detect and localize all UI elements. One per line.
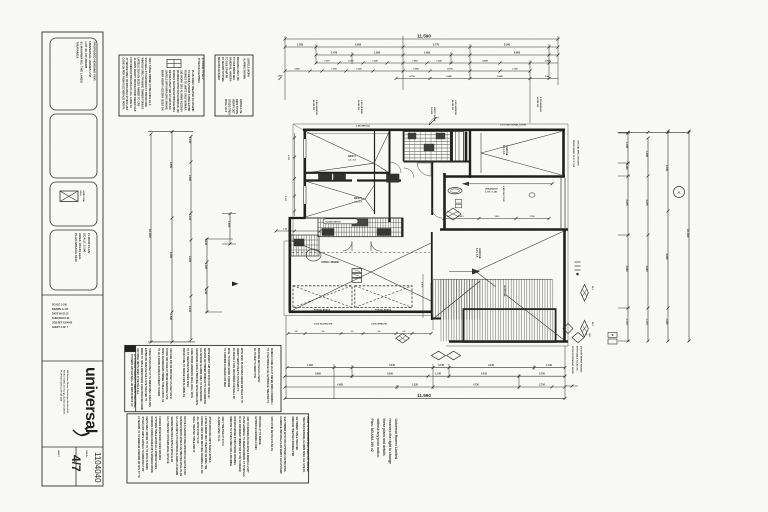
step dim line: [276, 230, 320, 232]
right chain line 2: [647, 138, 649, 342]
wall: left upper exterior: [303, 129, 306, 218]
wall: landing/garage divider: [465, 132, 468, 162]
wall: left lower exterior: [288, 217, 291, 313]
right wall outside labels: [572, 140, 574, 167]
box C black header square: [125, 345, 136, 351]
entry porch hatch: [404, 132, 453, 162]
wall: garage1 right: [562, 129, 565, 177]
right wall bottom notes (rotated): [571, 346, 574, 375]
right chain line 1: [627, 133, 629, 342]
wall: garage1 bottom: [444, 175, 565, 178]
wall: entry block bottom: [404, 161, 471, 163]
wall: kitchen top thin: [305, 217, 403, 219]
box C body text columns: [148, 348, 151, 407]
wall: interior vertical x390: [389, 129, 391, 222]
living ceiling diagonals: [292, 241, 371, 272]
right chains top connector: [618, 131, 689, 133]
garage slab outline (dark): [463, 309, 555, 342]
living beam dashed: [292, 252, 430, 254]
twin meter boxes: [608, 333, 617, 338]
bath oval: [448, 188, 462, 194]
top dim chain row 3: [316, 54, 558, 56]
bottom dim row B: [285, 375, 565, 377]
wall: entry block divider: [450, 131, 452, 162]
mid room dim line: [444, 218, 549, 220]
box C header strip rotated text: [133, 354, 136, 408]
garage2 floor hatch: [440, 279, 442, 341]
window inner line top: [307, 133, 389, 135]
meter stack marks: [575, 261, 581, 263]
stair break diagonal: [433, 281, 480, 319]
box B text block 3: [239, 99, 242, 114]
brace diamond right 2: [581, 320, 589, 337]
door arcs: [390, 162, 401, 173]
universal logo (rotated): [82, 367, 99, 433]
kitchen hatch band: [318, 218, 403, 237]
eaves outline left lower: [283, 241, 285, 316]
brace diamond pair below: [432, 351, 446, 360]
stair landing rails: [453, 132, 464, 162]
top dim chain row 5: [285, 70, 530, 72]
wall: bed2 / robe upper: [305, 172, 390, 174]
note box D (general notes): [127, 414, 309, 483]
verandah dim line: [462, 183, 552, 185]
bottom right stub: [565, 385, 578, 387]
box C header strip divider: [135, 345, 137, 411]
top dim chain row 2: [285, 46, 558, 48]
eaves outline left upper: [292, 124, 294, 241]
stair side wall: [431, 232, 433, 320]
title capsule: empty panel: [50, 114, 97, 178]
leader arrowhead to wall: [232, 282, 239, 287]
wall: mid-right room sides (thin): [560, 178, 562, 228]
shower diamond: [445, 208, 461, 220]
portal brace frame 1: [293, 286, 352, 308]
left chain line 2: [171, 132, 173, 342]
stair hatch: [432, 280, 434, 320]
eaves outline right: [567, 124, 569, 346]
wall: stair void left: [431, 283, 433, 312]
title divider 3: [42, 446, 103, 448]
garage2 label (rotated): [475, 248, 481, 259]
wall: garage2 top: [440, 228, 568, 231]
bottom tick dim row: [288, 333, 431, 335]
kitchen appliances dark: [322, 229, 334, 236]
bottom dim overall 11.590: [285, 397, 565, 399]
box D text columns: [145, 417, 148, 471]
wall: top exterior: [303, 129, 565, 132]
left wall window chain: [294, 133, 296, 216]
box B text block 2: [247, 58, 250, 77]
dining table ellipse: [306, 249, 321, 261]
garage door label (rotated): [502, 186, 505, 202]
top dim chain row 6: [396, 78, 558, 80]
kitchen right end wall: [402, 218, 404, 237]
garage2 ceiling diagonals: [476, 231, 564, 272]
title divider 2: [42, 360, 103, 362]
bottom chain witness verticals: [285, 316, 287, 399]
wall: entry block left: [403, 131, 405, 162]
kitchen label lozenge: [323, 219, 358, 224]
extra diamond at right corner: [563, 324, 573, 334]
job number 1104040 (rotated): [93, 452, 102, 483]
note box B (areas table): [215, 55, 253, 116]
wall: garage2 bottom: [449, 340, 568, 343]
wall: robe lower: [305, 179, 352, 181]
brace diamond bottom mid: [396, 334, 410, 344]
sheet number 4/7: [69, 455, 83, 472]
right chain line 3: [667, 131, 669, 342]
window gaps left wall: [303, 139, 306, 158]
living internal dim: [422, 274, 424, 318]
garage1 ceiling lines: [481, 132, 562, 154]
wall: step: [289, 217, 306, 219]
box B text block 1: [236, 57, 239, 80]
left chains bottom connector: [148, 341, 195, 343]
wc marks: [455, 200, 461, 204]
left chain line 4: [206, 239, 208, 312]
box A notes column 2: [191, 70, 194, 112]
title block outer frame: [42, 32, 103, 486]
shelving unit stack: [352, 269, 362, 273]
right chain line 4 overall: [688, 131, 690, 342]
portal brace frame 2: [355, 286, 412, 308]
window labels above top wall (rotated): [312, 100, 318, 115]
bottom dim row A: [287, 367, 565, 369]
wall: robe divider x374.5: [374, 131, 376, 214]
left chain line 3: [190, 136, 192, 340]
left chain overall 10.460: [150, 134, 152, 342]
left chain line 5 (short): [229, 214, 231, 244]
title capsule: project address: [50, 38, 97, 110]
hall wardrobe dark units: [387, 174, 400, 182]
bed3 ceiling diagonals: [305, 181, 365, 199]
top chain witness verticals: [284, 36, 286, 100]
hip corner diagonal: [293, 124, 305, 131]
ridge arrow: [472, 269, 480, 275]
wall: garage1 left: [469, 129, 471, 178]
title capsule: sheet name FLOOR PLAN: [50, 230, 97, 290]
logo swoosh: [73, 428, 89, 435]
eaves outline bottom right: [446, 345, 568, 347]
top dim chain: overall 11.590: [285, 38, 558, 40]
window symbol in box A: [167, 60, 181, 68]
title capsule: wind zone symbol: [50, 182, 97, 226]
grid bubble: [674, 187, 685, 198]
wall: interior vertical x432: [431, 162, 433, 216]
double door swings: [343, 242, 353, 252]
brace diamond right 1: [581, 285, 589, 302]
eaves outline top: [293, 123, 568, 125]
title divider: [42, 294, 103, 296]
bed2 ceiling diagonals: [305, 131, 374, 163]
wall: interior vertical x442: [443, 173, 446, 229]
eaves step connector: [284, 240, 293, 242]
wall: bottom left exterior: [289, 310, 432, 313]
wardrobe dark units: [319, 174, 333, 180]
note box A (construction notes): [119, 55, 204, 116]
right chain stub ticks: [618, 132, 630, 134]
left chains top connector: [148, 131, 193, 133]
verandah posts: [529, 193, 535, 197]
eaves outline bottom left: [284, 315, 433, 317]
box A notes column 3: [201, 58, 204, 80]
logo address lines (rotated): [59, 370, 69, 415]
brace diamond bottom right: [572, 333, 584, 343]
wall: garage2 right: [563, 230, 566, 343]
entry door swing above wall: [429, 117, 439, 125]
sheet cell divider: [75, 447, 77, 486]
garage1 label (rotated): [502, 145, 508, 156]
kitchen bench L-return: [291, 235, 319, 256]
note box C (bracing schedule): [125, 345, 281, 411]
top dim chain row 4: [316, 62, 558, 64]
bottom dim row C: [285, 386, 565, 388]
box A notes column 1: [148, 58, 151, 106]
disclaimer text (rotated): [370, 418, 398, 465]
entry porch dark blobs: [408, 133, 416, 139]
